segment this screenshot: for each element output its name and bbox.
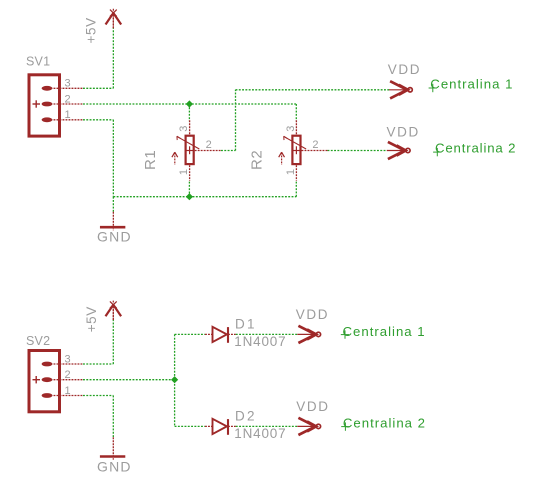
svg-text:SV1: SV1: [26, 55, 50, 69]
svg-text:1N4007: 1N4007: [234, 426, 286, 441]
svg-text:1: 1: [65, 109, 71, 121]
svg-text:VDD: VDD: [296, 399, 329, 414]
svg-text:3: 3: [285, 126, 297, 132]
svg-text:1: 1: [285, 169, 297, 175]
svg-text:D2: D2: [235, 409, 257, 424]
svg-text:3: 3: [178, 126, 190, 132]
svg-text:2: 2: [312, 139, 318, 151]
svg-text:1N4007: 1N4007: [234, 334, 286, 349]
svg-text:2: 2: [65, 93, 71, 105]
svg-text:3: 3: [65, 353, 71, 365]
svg-text:Centralina 2: Centralina 2: [435, 140, 516, 155]
svg-text:+5V: +5V: [84, 306, 99, 332]
svg-text:Centralina 2: Centralina 2: [343, 416, 426, 431]
svg-text:VDD: VDD: [387, 125, 420, 140]
svg-text:SV2: SV2: [26, 334, 50, 348]
svg-text:GND: GND: [97, 228, 132, 244]
svg-text:R1: R1: [142, 150, 159, 170]
svg-text:D1: D1: [235, 317, 257, 332]
svg-text:VDD: VDD: [296, 307, 329, 322]
svg-text:1: 1: [65, 385, 71, 397]
svg-text:3: 3: [65, 78, 71, 90]
svg-text:1: 1: [178, 169, 190, 175]
svg-text:+5V: +5V: [84, 17, 99, 43]
svg-text:Centralina 1: Centralina 1: [430, 77, 513, 92]
svg-text:2: 2: [206, 139, 212, 151]
svg-text:R2: R2: [249, 150, 266, 170]
svg-text:GND: GND: [97, 458, 132, 474]
svg-text:Centralina 1: Centralina 1: [343, 324, 426, 339]
svg-text:2: 2: [65, 369, 71, 381]
svg-text:VDD: VDD: [388, 62, 421, 77]
